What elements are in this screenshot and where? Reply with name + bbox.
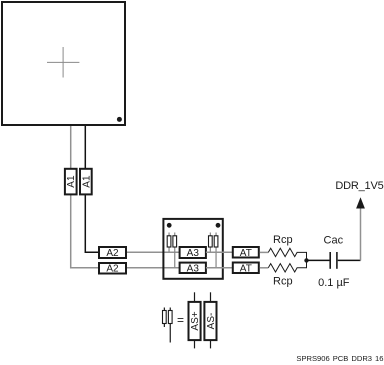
svg-text:A1: A1	[66, 175, 77, 188]
wire: gray trace A3 lower to AT lower	[206, 267, 233, 269]
svg-text:A2: A2	[106, 248, 119, 259]
svg-text:0.1 µF: 0.1 µF	[318, 277, 350, 289]
resistor A1 (left, vertical)	[65, 169, 77, 195]
svg-text:=: =	[177, 313, 184, 327]
svg-text:AS-: AS-	[206, 313, 217, 330]
resistor Rcp (lower)	[268, 260, 306, 272]
lead wires AS-	[210, 292, 212, 348]
wire: black trace from IC through A1 right to A2 upper	[85, 126, 98, 252]
component AS- (vertical)	[204, 302, 217, 340]
svg-text:A1: A1	[81, 175, 92, 188]
resistor AT (upper)	[233, 247, 259, 259]
wire: gray trace A2 upper to A3 upper	[127, 251, 179, 253]
node dot (top-left of PCB box)	[167, 223, 172, 228]
svg-text:A3: A3	[187, 248, 200, 259]
IC center cross	[47, 47, 79, 78]
svg-text:Rcp: Rcp	[273, 234, 293, 246]
wire: gray stub AT lower to Rcp lower	[260, 267, 269, 269]
junction dot (Rcp outputs)	[304, 258, 308, 262]
lead wires AS+	[194, 292, 196, 348]
svg-text:Rcp: Rcp	[273, 275, 293, 287]
node dot (top-right of PCB box)	[216, 223, 221, 228]
svg-text:A2: A2	[106, 264, 119, 275]
svg-text:AT: AT	[240, 248, 252, 259]
svg-text:A3: A3	[187, 263, 200, 274]
svg-text:Cac: Cac	[324, 234, 344, 246]
wire: gray stub AT upper to Rcp upper	[260, 251, 269, 253]
wire: gray trace from IC through A1 left to A2 lower	[71, 126, 99, 268]
wire: gray trace A3 upper to AT upper	[206, 251, 233, 253]
wire: gray trace A2 lower to A3 lower	[127, 267, 179, 269]
resistor A1 (right, vertical)	[80, 169, 92, 195]
resistor A3 (upper)	[180, 247, 206, 259]
svg-text:AT: AT	[240, 263, 252, 274]
svg-text:DDR_1V5: DDR_1V5	[335, 180, 383, 192]
resistor A2 (lower)	[99, 263, 126, 275]
resistor Rcp (upper)	[268, 248, 306, 260]
capacitor Cac	[330, 252, 337, 269]
power arrow DDR_1V5	[356, 197, 365, 208]
wire: gray vertical up to DDR_1V5 arrow	[360, 208, 362, 260]
resistor AT (lower)	[233, 263, 259, 275]
svg-text:AS+: AS+	[190, 311, 201, 330]
via pair (right, inside PCB box)	[209, 233, 218, 268]
wire: black junction to Cac	[307, 259, 330, 261]
wire: black Cac to corner	[338, 259, 361, 261]
PCB region box	[163, 219, 222, 279]
resistor A2 (upper)	[99, 247, 126, 259]
component AS+ (vertical)	[189, 302, 202, 340]
IC U1 (BGA package outline)	[2, 2, 125, 125]
via pair (left, inside PCB box)	[167, 233, 176, 268]
via pair (legend symbol, bottom)	[163, 308, 173, 343]
IC pin-1 dot	[117, 117, 122, 122]
resistor A3 (lower)	[180, 263, 206, 275]
svg-text:SPRS906 PCB DDR3 16: SPRS906 PCB DDR3 16	[296, 354, 383, 363]
